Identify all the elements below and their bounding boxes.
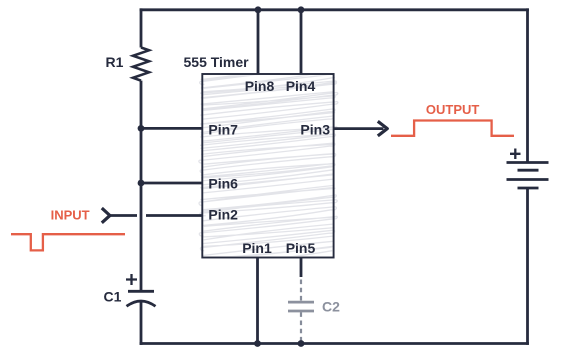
wire: pin6 stub from left rail [141, 182, 202, 185]
wire: bottom rail [140, 342, 529, 345]
output waveform positive pulse [391, 121, 514, 136]
svg-text:C1: C1 [104, 289, 122, 305]
svg-text:Pin4: Pin4 [286, 78, 316, 94]
555 timer IC border [202, 74, 333, 258]
svg-text:R1: R1 [106, 54, 124, 70]
node: junction dot pin5/bottom rail [298, 340, 305, 347]
capacitor C2 top plate [288, 301, 314, 304]
wire: right rail upper segment (top rail down to battery) [526, 8, 529, 162]
svg-text:OUTPUT: OUTPUT [426, 102, 480, 117]
input arrow chevron [102, 208, 110, 223]
wire: right rail lower segment (battery to bottom rail) [526, 188, 529, 345]
battery negative plate 2 (short) [518, 187, 539, 190]
svg-text:Pin7: Pin7 [208, 122, 238, 138]
wire: left rail lower segment (R1 down to C1 top plate) [140, 81, 143, 290]
capacitor C1 plus sign [126, 274, 137, 285]
555 timer IC sketchy hatch fill [199, 63, 338, 267]
svg-text:Pin5: Pin5 [286, 240, 316, 256]
battery negative plate (short) [518, 169, 539, 172]
wire: top rail from top-left corner to top-right corner [140, 8, 529, 11]
battery positive plate 2 (long) [507, 178, 549, 181]
capacitor C1 top plate [128, 290, 154, 293]
capacitor C1 curved plate [127, 301, 156, 306]
battery positive plate (long) [507, 161, 549, 164]
op-amp U1: 555 timer IC body [202, 74, 333, 258]
output arrow chevron [378, 121, 388, 136]
wire: C1 to bottom rail [140, 301, 143, 345]
svg-text:C2: C2 [322, 299, 340, 315]
resistor R1 [133, 48, 149, 81]
svg-text:Pin8: Pin8 [245, 78, 275, 94]
wire: pin2 stub left of crossover [110, 214, 137, 217]
wire: pin7 stub from left rail [141, 127, 202, 130]
svg-text:Pin6: Pin6 [208, 176, 238, 192]
wire: pin3 output shaft [334, 127, 384, 130]
wire: pin1 stub to bottom rail [256, 258, 259, 344]
svg-text:INPUT: INPUT [51, 208, 90, 223]
node: junction dot pin8/top rail [255, 6, 262, 13]
wire: pin5 solid stub [300, 258, 303, 278]
wire: pin5 dashed segment upper [300, 280, 302, 302]
wire: pin2 stub right of crossover [146, 214, 202, 217]
node: junction dot pin7/left rail [138, 125, 145, 132]
input waveform negative pulse [11, 234, 125, 250]
svg-text:Pin3: Pin3 [300, 122, 330, 138]
svg-text:Pin1: Pin1 [242, 240, 272, 256]
wire: pin4 stub to top rail [300, 10, 303, 74]
wire: pin8 stub to top rail [257, 10, 260, 74]
wire: pin5 dashed segment lower [300, 312, 302, 343]
wire: left rail upper segment (top rail down to R1) [140, 8, 143, 47]
node: junction dot pin6/left rail [138, 180, 145, 187]
svg-text:555 Timer: 555 Timer [184, 54, 250, 70]
node: junction dot pin1/bottom rail [254, 340, 261, 347]
capacitor C2 bottom plate [288, 310, 314, 313]
svg-text:Pin2: Pin2 [208, 207, 238, 223]
node: junction dot pin4/top rail [298, 6, 305, 13]
battery plus sign [510, 149, 521, 160]
